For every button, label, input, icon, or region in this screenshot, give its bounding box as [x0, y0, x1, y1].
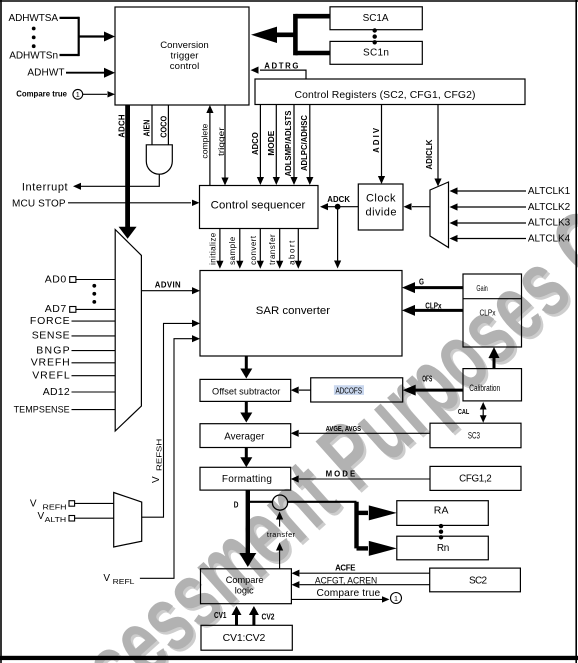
svg-text:SAR converter: SAR converter — [256, 305, 331, 317]
svg-text:G: G — [419, 278, 424, 287]
wire ADVIN — [141, 290, 192, 292]
SC1 dots — [373, 28, 377, 32]
svg-text:Compare true: Compare true — [317, 588, 381, 599]
svg-text:ADHWT: ADHWT — [27, 68, 64, 79]
mux clock select — [430, 182, 449, 248]
svg-text:ADCK: ADCK — [327, 195, 350, 204]
svg-text:Compare true: Compare true — [16, 88, 67, 98]
wire VREFL — [140, 339, 193, 579]
wire AND output to Interrupt — [80, 174, 159, 186]
mux analog input — [115, 230, 141, 432]
wire ALTCLK1 — [456, 190, 526, 192]
svg-text:Rn: Rn — [437, 543, 450, 554]
svg-text:SC3: SC3 — [468, 431, 480, 442]
svg-text:ADLPC/ADHSC: ADLPC/ADHSC — [300, 115, 309, 171]
svg-text:CFG1,2: CFG1,2 — [459, 473, 492, 484]
wire ADCK — [328, 206, 358, 208]
block Calibration — [463, 369, 522, 401]
wire ADTRG — [260, 70, 306, 79]
svg-text:initialize: initialize — [208, 232, 217, 265]
wire Compare true out — [291, 598, 383, 600]
junction ADCK dot — [335, 204, 341, 210]
svg-text:1: 1 — [76, 90, 80, 99]
svg-text:VREFH: VREFH — [31, 357, 70, 369]
wire transfer lower arrow — [279, 545, 281, 569]
wire abort — [297, 229, 299, 267]
svg-text:AIEN: AIEN — [142, 119, 151, 136]
wire V ALTH to mux — [75, 517, 114, 519]
wire transfer upper arrow — [279, 514, 281, 527]
wire CLPx — [413, 309, 463, 312]
wire convert — [259, 229, 261, 267]
wire Calibration to CLPx — [493, 356, 496, 369]
node V ALTH square — [69, 516, 75, 522]
svg-text:trigger: trigger — [171, 50, 200, 61]
block SC2 — [430, 568, 521, 592]
wire Offset to Averager — [245, 401, 248, 414]
border frame top — [0, 0, 578, 2]
wire VREFSH — [142, 323, 193, 517]
block Offset subtractor — [200, 379, 291, 401]
wire Averager to Formatting — [245, 448, 248, 460]
svg-text:transfer: transfer — [268, 234, 277, 265]
svg-text:ADCO: ADCO — [251, 132, 260, 155]
svg-text:ADHWTSA: ADHWTSA — [9, 13, 59, 24]
block SC1A — [330, 7, 422, 30]
block Clock divide — [358, 184, 403, 230]
wire RA branch — [357, 511, 369, 515]
wire transfer — [279, 229, 281, 267]
svg-text:complete: complete — [200, 123, 209, 159]
AD dots — [92, 284, 96, 288]
wire MCU STOP — [68, 202, 191, 204]
block SC3 — [430, 423, 521, 448]
svg-text:divide: divide — [366, 207, 397, 219]
block SAR converter — [200, 271, 402, 357]
wire Formatting down thick — [246, 490, 250, 553]
svg-text:CV2: CV2 — [262, 613, 276, 622]
svg-text:sample: sample — [228, 236, 237, 265]
wire ACFE — [300, 572, 430, 574]
RA/Rn dots — [439, 524, 443, 528]
wire initialize — [219, 229, 221, 267]
connector circled 1 (bottom) — [391, 593, 402, 604]
wire COCO — [167, 105, 169, 145]
wire ALTCLK4 — [456, 238, 526, 240]
wire compare true to trigger ctl — [83, 93, 107, 95]
wire SC1 to trigger ctl — [295, 14, 330, 19]
svg-text:MCU STOP: MCU STOP — [12, 198, 66, 209]
border frame left — [0, 0, 2, 663]
svg-text:Averager: Averager — [224, 432, 265, 443]
svg-text:V: V — [151, 476, 162, 483]
wire ADCH thick — [125, 105, 130, 228]
block Formatting — [200, 467, 291, 490]
wire OFS — [413, 389, 463, 392]
wire ADIV — [381, 105, 383, 183]
svg-text:Control Registers (SC2, CFG1,: Control Registers (SC2, CFG1, CFG2) — [295, 90, 476, 101]
svg-text:TEMPSENSE: TEMPSENSE — [14, 404, 70, 414]
wire RA/Rn trunk — [354, 502, 358, 549]
svg-text:REFSH: REFSH — [155, 439, 164, 471]
wire MODE (top) — [275, 105, 277, 184]
svg-text:Control sequencer: Control sequencer — [211, 200, 306, 212]
svg-text:VREFL: VREFL — [32, 369, 70, 381]
svg-text:SC2: SC2 — [469, 576, 488, 587]
svg-text:Offset subtractor: Offset subtractor — [212, 387, 280, 397]
svg-text:ADLSMP/ADLSTS: ADLSMP/ADLSTS — [284, 111, 293, 177]
svg-text:ADVIN: ADVIN — [155, 281, 181, 290]
svg-text:AD0: AD0 — [45, 274, 67, 286]
svg-text:RA: RA — [434, 504, 449, 516]
wire CFG to Formatting — [299, 478, 430, 480]
gate AND interrupt — [146, 145, 172, 174]
svg-text:REFH: REFH — [43, 502, 67, 511]
block SC1n — [330, 41, 422, 64]
wire clock mux to divide — [412, 206, 430, 208]
svg-text:control: control — [170, 61, 200, 72]
wire ADICLK — [437, 105, 439, 185]
wire ACFGT ACREN — [300, 584, 430, 586]
svg-text:ADHWTSn: ADHWTSn — [9, 50, 58, 61]
svg-text:ADICLK: ADICLK — [425, 139, 434, 169]
border frame bottom bar — [0, 656, 578, 660]
svg-text:1: 1 — [394, 594, 398, 603]
wire CAL double arrow — [482, 404, 484, 421]
svg-text:V: V — [103, 573, 110, 584]
wire SC3 to Averager — [299, 432, 430, 434]
wire G — [413, 286, 463, 289]
svg-text:Clock: Clock — [366, 192, 396, 204]
svg-text:V: V — [38, 511, 45, 522]
wire V REFH to mux — [75, 502, 114, 504]
svg-text:COCO: COCO — [160, 116, 169, 138]
wire Rn branch — [357, 546, 369, 550]
wire CV2 — [252, 613, 255, 625]
svg-text:Interrupt: Interrupt — [22, 181, 68, 193]
wire trigger — [224, 105, 226, 184]
wire D branch right — [248, 501, 357, 503]
wire ADCO — [259, 105, 261, 184]
block RA — [397, 501, 489, 526]
block ADCOFS — [311, 378, 403, 402]
svg-text:ACFGT, ACREN: ACFGT, ACREN — [315, 575, 377, 585]
wire complete — [209, 107, 211, 186]
block Rn — [397, 536, 489, 560]
svg-text:SC1A: SC1A — [363, 13, 389, 24]
svg-text:ACFE: ACFE — [335, 564, 355, 573]
block Control Registers — [255, 79, 525, 105]
wire ALTCLK3 — [456, 222, 526, 224]
wire AIEN — [151, 105, 153, 145]
wire CV1 — [235, 613, 238, 625]
wire ALTCLK2 — [456, 206, 526, 208]
svg-text:BNGP: BNGP — [36, 344, 70, 356]
wire ADLPC/ADHSC — [309, 105, 311, 184]
wire sample — [239, 229, 241, 267]
svg-text:ADTRG: ADTRG — [264, 61, 298, 70]
svg-text:Conversion: Conversion — [160, 40, 209, 51]
block Conversion trigger control — [115, 7, 249, 105]
wire ADHWTSA bracket — [60, 17, 79, 19]
svg-text:ADIV: ADIV — [372, 127, 381, 153]
svg-text:SENSE: SENSE — [32, 330, 70, 342]
svg-text:ADCH: ADCH — [117, 114, 126, 138]
wire ADHWT — [66, 72, 104, 74]
wire ADCK to SAR — [337, 207, 339, 266]
svg-text:convert: convert — [249, 235, 258, 265]
block CFG1,2 — [430, 466, 521, 490]
svg-text:trigger: trigger — [217, 127, 226, 156]
block CV1:CV2 — [201, 625, 292, 650]
svg-text:ALTH: ALTH — [45, 515, 66, 524]
svg-text:abort: abort — [288, 240, 297, 265]
connector circled 1 (top) — [73, 89, 83, 99]
block Compare logic — [201, 569, 292, 604]
svg-text:V: V — [30, 498, 37, 509]
wire ADLSMP/ADLSTS — [293, 105, 295, 184]
border frame right — [575, 0, 577, 663]
svg-text:AD12: AD12 — [43, 386, 70, 398]
mux vref select — [114, 493, 142, 548]
node V REFH square — [69, 501, 75, 507]
svg-text:FORCE: FORCE — [30, 315, 70, 327]
block Gain/CLPx — [463, 274, 522, 347]
svg-text:SC1n: SC1n — [363, 47, 389, 58]
svg-text:AD7: AD7 — [45, 303, 67, 315]
svg-text:MODE: MODE — [267, 131, 276, 156]
block Control sequencer — [200, 186, 319, 229]
wire ADCOFS to Offset — [299, 389, 311, 391]
block Averager — [200, 424, 291, 448]
ADHWTS dots — [32, 27, 36, 31]
wire SAR to Offset subtractor — [245, 356, 248, 370]
junction transfer circle — [272, 495, 287, 510]
